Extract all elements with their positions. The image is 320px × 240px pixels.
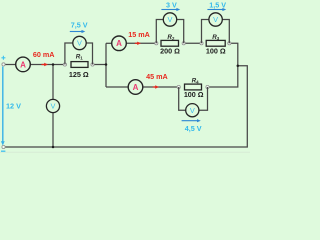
wire: R2 to R3 <box>184 42 202 44</box>
resistor R4 <box>177 84 209 90</box>
ammeter A3 <box>128 80 143 95</box>
ammeter A2 <box>112 36 127 51</box>
voltmeter V3 bracket over R2 <box>156 20 163 44</box>
svg-text:R1: R1 <box>76 54 84 61</box>
svg-text:V: V <box>77 39 82 48</box>
12 V source arrow <box>1 67 5 146</box>
svg-text:A: A <box>116 39 122 48</box>
svg-text:1,5 V: 1,5 V <box>209 0 226 9</box>
wire: R3 to top-right corner down to node <box>229 43 238 66</box>
svg-text:V: V <box>51 102 56 111</box>
bottom edge shading <box>0 152 250 153</box>
svg-text:200 Ω: 200 Ω <box>160 47 180 56</box>
svg-text:R3: R3 <box>212 34 220 41</box>
wire: R1 right terminal to node split <box>93 64 107 66</box>
voltmeter V1 (source) <box>46 99 59 112</box>
voltmeter V5 bracket under R4 <box>179 87 186 110</box>
svg-text:A: A <box>20 60 26 69</box>
resistor R2 <box>155 40 186 46</box>
battery - terminal <box>1 145 5 151</box>
svg-text:100 Ω: 100 Ω <box>206 47 226 56</box>
battery + terminal <box>1 56 5 66</box>
svg-text:R4: R4 <box>192 77 200 84</box>
wire: A1 to R1 left terminal <box>31 64 66 66</box>
voltmeter V5 <box>186 104 199 117</box>
ammeter A1 <box>16 57 31 72</box>
wire: R4 right to rise up to node <box>208 66 238 87</box>
svg-text:15 mA: 15 mA <box>128 30 150 39</box>
current arrow after A3 <box>153 85 159 88</box>
svg-text:7,5 V: 7,5 V <box>71 20 88 29</box>
svg-text:V: V <box>168 15 173 24</box>
svg-text:R2: R2 <box>167 34 175 41</box>
wire: bottom branch from split to A3 <box>106 86 128 88</box>
wire: voltmeter V1 branch vertical <box>52 65 54 100</box>
resistor R3 <box>200 40 231 46</box>
voltmeter V2 <box>73 36 86 49</box>
wire: source + to ammeter A1 <box>4 64 17 66</box>
4,5 V arrow <box>182 119 201 122</box>
1,5 V arrow <box>207 8 226 11</box>
svg-text:4,5 V: 4,5 V <box>185 124 202 133</box>
current arrow after A1 <box>42 63 49 66</box>
wire: A3 to R4 <box>143 86 179 88</box>
wire: top branch from split to A2 <box>106 42 112 44</box>
wire: node jog right and down to bottom <box>4 66 248 147</box>
wire: A2 to R2 <box>127 42 157 44</box>
voltmeter V3 <box>163 13 176 26</box>
svg-text:60 mA: 60 mA <box>33 50 55 59</box>
svg-text:100 Ω: 100 Ω <box>184 90 204 99</box>
7,5 V arrow <box>70 30 86 33</box>
wire: vertical branch split at x=106 <box>105 43 107 87</box>
voltmeter V4 bracket over R3 <box>202 20 209 44</box>
voltmeter V4 <box>209 13 222 26</box>
svg-text:12 V: 12 V <box>6 102 21 111</box>
svg-text:V: V <box>213 15 218 24</box>
junction node after A1 <box>52 63 55 66</box>
3 V arrow <box>161 8 180 11</box>
svg-text:45 mA: 45 mA <box>146 72 168 81</box>
svg-text:V: V <box>190 106 195 115</box>
svg-text:A: A <box>133 83 139 92</box>
resistor R1 <box>63 62 94 68</box>
junction node right side <box>237 65 240 68</box>
current arrow after A2 <box>135 42 141 45</box>
junction node split after R1 <box>105 63 108 66</box>
svg-text:125 Ω: 125 Ω <box>69 70 89 79</box>
voltmeter V2 bracket over R1 <box>65 43 73 65</box>
junction node V1 at bottom wire <box>52 146 55 149</box>
svg-text:3 V: 3 V <box>166 0 177 9</box>
